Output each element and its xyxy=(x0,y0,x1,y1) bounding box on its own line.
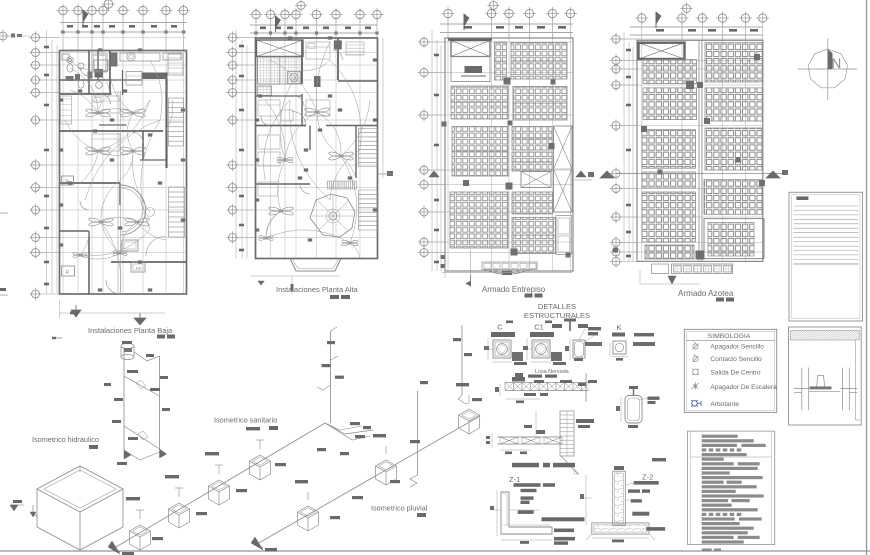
plan3 top dimension circles xyxy=(444,9,452,17)
plan1 top dimension circles xyxy=(59,6,67,14)
plan2 interior walls xyxy=(301,40,303,85)
svg-text:Instalaciones Planta Alta: Instalaciones Planta Alta xyxy=(276,285,359,294)
plan1 bedroom furniture xyxy=(92,96,120,113)
svg-text:Armado Entrepiso: Armado Entrepiso xyxy=(482,285,546,294)
pluvial risers xyxy=(417,391,419,475)
plan2 electrical wires xyxy=(266,211,281,238)
plan3 right small rooms xyxy=(556,216,572,255)
plan1 kitchen counter xyxy=(142,73,168,80)
notes box label xyxy=(796,196,808,200)
Z-2 footing xyxy=(592,523,649,534)
plan4 top dimension circles xyxy=(638,14,646,22)
plan2 north flag xyxy=(276,16,281,28)
plan2 bedroom furniture xyxy=(258,100,280,116)
plan1 ceiling fans xyxy=(98,111,111,118)
svg-text:Isometrico pluvial: Isometrico pluvial xyxy=(371,504,428,513)
simbologia box xyxy=(684,329,776,412)
plan3 beam node squares xyxy=(504,78,511,85)
plan3 machine room box xyxy=(451,57,490,82)
plan3 north flag xyxy=(464,14,469,26)
plan2 outlets and switches xyxy=(255,118,259,121)
plan2 stair hatch middle xyxy=(327,181,329,189)
legend row salida de centro xyxy=(692,369,699,376)
plan2 bathroom tile floor xyxy=(258,57,302,84)
hidraulico cistern isobox xyxy=(37,466,123,512)
plan2 door arcs xyxy=(294,96,304,106)
svg-text:Z-2: Z-2 xyxy=(642,473,653,482)
plan1 top dimension lines xyxy=(60,22,187,24)
plan3 xbrace small xyxy=(521,172,551,188)
svg-text:ESTRUCTURALES: ESTRUCTURALES xyxy=(524,311,590,320)
plan2 outer walls xyxy=(256,38,378,259)
plan1 stairs lower right xyxy=(169,186,185,188)
plan3 dark equipment xyxy=(465,66,483,73)
plan4 left dimension lines xyxy=(623,32,625,261)
plan4 axis grid vertical xyxy=(641,23,643,261)
sanitario riser tree xyxy=(330,331,332,423)
plan1 bottom drain symbols xyxy=(71,310,81,317)
notes below box xyxy=(702,549,712,552)
svg-text:C: C xyxy=(497,323,503,332)
svg-text:Losa Nervada: Losa Nervada xyxy=(535,369,569,375)
plan1 axis grid horizontal xyxy=(40,37,187,39)
plan3 bottom dim line xyxy=(442,271,572,273)
plan2 xbrace top-left xyxy=(257,40,304,57)
svg-text:Contacto Sencillo: Contacto Sencillo xyxy=(710,356,762,363)
plan1 stairs upper right xyxy=(169,97,184,99)
plan2 right side markers xyxy=(382,38,384,178)
plan4 top dimension lines xyxy=(630,26,763,28)
svg-text:Isometrico sanitario: Isometrico sanitario xyxy=(214,416,277,425)
plan3 left dimension circles xyxy=(420,38,428,46)
plan4 xbrace tank dark xyxy=(639,43,685,59)
sanitario boxes xyxy=(130,525,151,537)
svg-text:Instalaciones Planta Baja: Instalaciones Planta Baja xyxy=(88,326,173,335)
rebar tee symbol top xyxy=(569,319,571,331)
plan1 room label boxes xyxy=(62,176,74,185)
plan1 duct box xyxy=(111,53,118,66)
plan3 outer walls xyxy=(445,38,573,271)
svg-text:Salida De Centro: Salida De Centro xyxy=(710,370,761,377)
plan3 bay bottom boxes xyxy=(482,262,537,270)
hidraulico faucet xyxy=(33,514,37,516)
plan3 stairwell xbrace tall xyxy=(554,126,573,212)
plan2 top dimension lines xyxy=(250,24,378,26)
truss bottom dim xyxy=(500,449,530,451)
plan2 spiral stair xyxy=(310,194,355,237)
plan4 left dimension circles xyxy=(612,35,620,43)
svg-text:K: K xyxy=(616,323,621,332)
pluvial riser bars xyxy=(420,381,428,384)
plan1 electrical wires xyxy=(70,60,95,70)
svg-text:RP: RP xyxy=(136,266,142,271)
truss top hardware xyxy=(536,430,545,434)
plan2 stairs right xyxy=(359,128,378,130)
hidraulico branch diagonal 2 xyxy=(124,426,160,449)
losa nervada dim xyxy=(505,398,540,400)
plan3 left dimension lines xyxy=(431,30,433,271)
plan4 outer walls xyxy=(637,40,763,261)
sanitario bars along line xyxy=(152,537,163,540)
legend row arbotante blue symbol xyxy=(691,400,701,407)
sanitario tree branches xyxy=(325,423,373,434)
plan4 node squares xyxy=(686,81,694,89)
Z-2 column with concrete xyxy=(613,471,626,526)
plan4 north flag xyxy=(656,12,661,24)
Z-1 text bars xyxy=(514,483,541,487)
detail box fixture xyxy=(817,376,825,387)
svg-text:Apagador De Escalera: Apagador De Escalera xyxy=(710,384,777,391)
sanitario vent stub xyxy=(331,327,338,331)
sanitario main line xyxy=(121,423,325,544)
Z-1 bottom dim xyxy=(501,539,552,541)
svg-text:Apagador Sencillo: Apagador Sencillo xyxy=(710,344,764,351)
svg-text:SIMBOLOGIA: SIMBOLOGIA xyxy=(708,333,751,340)
svg-text:Isometrico hidraulico: Isometrico hidraulico xyxy=(32,435,99,444)
legend row apagador sencillo xyxy=(693,342,699,350)
plan1 curved wall arc xyxy=(121,185,146,235)
svg-text:Arbotante: Arbotante xyxy=(710,401,739,408)
notes text bars xyxy=(702,435,738,438)
detail box hatch band xyxy=(791,331,860,341)
svg-text:N: N xyxy=(832,56,842,71)
plan1 bathroom fixtures xyxy=(67,57,73,63)
hidraulico mid bars xyxy=(114,398,123,401)
plan2 top dimension circles xyxy=(252,10,260,18)
svg-text:Armado Azotea: Armado Azotea xyxy=(678,289,734,298)
sheet left edge dim circle xyxy=(0,32,7,40)
plan1 corridor lines xyxy=(117,91,119,294)
plan1 bottom dimension line xyxy=(60,312,166,314)
plan1 left dimension circles xyxy=(32,34,40,42)
plan1 north flag xyxy=(83,10,88,22)
hidraulico bottom arrows xyxy=(124,450,131,459)
column detail middle xyxy=(573,340,585,358)
plan4 mid dimension dark line xyxy=(616,173,786,175)
hidraulico riser pipes xyxy=(123,348,125,450)
plan4 axis grid horizontal xyxy=(620,38,763,40)
plan1 wc door arcs xyxy=(80,67,89,76)
plan3 top dimension lines xyxy=(440,23,573,25)
svg-text:Z-1: Z-1 xyxy=(509,475,520,484)
plan2 axis grid horizontal xyxy=(237,37,378,39)
notes box ruled lines xyxy=(794,205,859,207)
plan2 left dimension lines xyxy=(235,30,237,259)
svg-text:C1: C1 xyxy=(534,323,544,332)
plan2 bottom dim xyxy=(250,275,340,277)
specification notes block xyxy=(688,431,775,544)
plan4 center wall xyxy=(698,40,700,261)
ladder diagonal xyxy=(561,456,578,474)
Z-2 leader lines xyxy=(625,483,634,485)
plan2 ceiling fans xyxy=(281,209,294,216)
sanitario arrows bottom-left xyxy=(112,544,121,552)
stair ladder column xyxy=(560,411,574,456)
plan4 nested inner slab xyxy=(704,219,764,259)
plan2 bay window bottom xyxy=(290,259,341,272)
sanitario tree bars xyxy=(322,364,331,367)
plan3 left markers mid xyxy=(429,171,439,177)
plan3 axis grid vertical xyxy=(447,19,449,271)
pluvial boxes xyxy=(298,506,319,518)
plan4 bay row bottom xyxy=(672,264,733,274)
Z-2 text bars xyxy=(634,481,659,485)
svg-text:DETALLES: DETALLES xyxy=(538,302,576,311)
dark bar row xyxy=(512,463,539,468)
plan2 left dimension circles xyxy=(229,34,237,42)
detail box lower right xyxy=(789,327,862,425)
plan2 axis grid vertical xyxy=(255,20,257,259)
notes box upper right xyxy=(789,192,863,321)
pluvial arrow bottom xyxy=(255,540,264,548)
plan3 right markers xyxy=(576,171,586,177)
plan3 bottom flag mark xyxy=(470,250,472,287)
plan2 center dark node xyxy=(314,76,321,87)
sanitario box stubs xyxy=(139,510,141,519)
Z-2 dim lines xyxy=(585,475,587,525)
plan1 outer walls xyxy=(60,51,187,295)
losa nervada right post xyxy=(585,373,587,402)
plan4 waffle slab zones xyxy=(643,60,697,84)
losa nervada top blocks xyxy=(512,377,525,382)
plan3 waffle slab zones xyxy=(495,42,507,80)
hidraulico tank xyxy=(121,343,134,348)
detail box pipes xyxy=(801,368,803,411)
north compass xyxy=(808,49,847,88)
plan1 axis grid vertical xyxy=(62,16,64,294)
plan3 xbrace tank top-left xyxy=(448,38,492,41)
plan1 left dimension lines xyxy=(46,30,48,294)
plan1 outlets and switches xyxy=(59,98,63,101)
pluvial box stubs xyxy=(307,492,309,500)
svg-text:R: R xyxy=(66,270,70,276)
channel section detail xyxy=(625,396,642,424)
plan3 axis grid horizontal xyxy=(428,41,573,43)
detail box right column xyxy=(854,340,856,420)
hidraulico top connector xyxy=(134,352,160,361)
sheet border bottom xyxy=(0,550,870,552)
Z-2 footing hatch ends xyxy=(586,534,592,540)
losa nervada truss section xyxy=(505,382,588,384)
plan3 bay fan arcs xyxy=(484,270,530,275)
plan1 interior walls xyxy=(60,93,112,95)
legend row apagador de escalera xyxy=(692,382,700,390)
sheet border right xyxy=(866,0,868,555)
plan4 bottom left angle mark xyxy=(668,276,676,284)
plan1 bathroom dark fixtures xyxy=(95,69,104,78)
plan2 beds and furniture xyxy=(258,135,280,149)
legend row contacto sencillo xyxy=(693,354,699,362)
plan2 washer xyxy=(288,72,301,84)
second truss with stair xyxy=(497,436,561,438)
left edge small marks xyxy=(13,500,22,503)
pluvial main line xyxy=(264,416,480,540)
hidraulico branch diagonal 1 xyxy=(124,376,160,396)
north needle xyxy=(828,50,832,70)
